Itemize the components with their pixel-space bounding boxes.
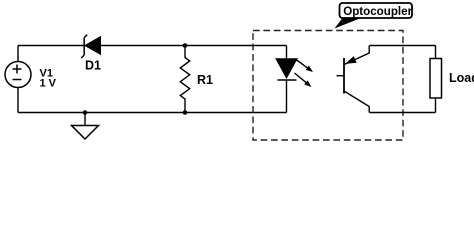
resistor R1: [180, 46, 189, 113]
svg-text:1 V: 1 V: [40, 77, 57, 89]
wire top rail left: [18, 45, 287, 47]
wire bottom rail right: [370, 112, 436, 114]
node junction dot ground tap: [83, 110, 88, 115]
node junction dot R1 top: [183, 43, 188, 48]
ground: [72, 113, 99, 140]
wire top rail right: [370, 45, 436, 47]
svg-text:D1: D1: [85, 59, 101, 73]
zener diode D1: [81, 35, 100, 58]
light arrow lower: [295, 73, 312, 87]
wire bottom rail left: [18, 112, 287, 114]
wire LED branch vertical: [286, 46, 288, 113]
svg-text:Load: Load: [449, 71, 474, 85]
LED diode: [276, 59, 297, 80]
voltage source V1: [5, 62, 31, 88]
svg-text:Optocoupler: Optocoupler: [343, 5, 412, 18]
node junction dot R1 bottom: [183, 110, 188, 115]
load resistor: [430, 46, 442, 113]
light arrow upper: [296, 60, 313, 73]
optocoupler dashed boundary box: [253, 31, 403, 141]
wire left vertical to source: [17, 46, 19, 113]
callout label box Optocoupler: [340, 3, 413, 18]
phototransistor Q1: [337, 46, 370, 113]
svg-text:R1: R1: [197, 73, 213, 87]
callout pointer: [335, 18, 362, 29]
